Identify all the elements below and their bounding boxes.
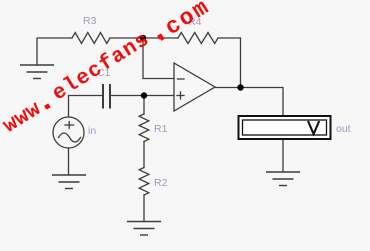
capacitor C1 plate left — [102, 85, 104, 108]
resistor R4 — [178, 33, 218, 44]
watermark www.elecfans.com — [0, 0, 215, 139]
node A junction — [140, 35, 146, 41]
ground under source — [52, 175, 86, 189]
wire R3 to node A — [110, 37, 143, 39]
op-amp plus sign — [177, 95, 184, 97]
wire op-amp output to meter corner — [215, 88, 283, 117]
op-amp minus sign — [178, 78, 185, 80]
svg-text:in: in — [88, 125, 96, 137]
voltmeter V letter — [308, 121, 319, 134]
source sine wave — [59, 133, 81, 142]
source AC circle — [53, 117, 84, 148]
op-amp U1 — [174, 63, 215, 111]
node B junction — [141, 92, 147, 98]
svg-text:R3: R3 — [83, 15, 97, 27]
resistor R1 — [139, 114, 149, 142]
wire R4 to feedback corner — [218, 38, 241, 88]
svg-text:R2: R2 — [154, 177, 168, 189]
svg-text:R1: R1 — [154, 123, 168, 135]
wire R1 to R2 — [143, 142, 145, 168]
svg-text:out: out — [336, 123, 351, 135]
ground top-left — [20, 65, 54, 79]
voltmeter V inner box — [243, 120, 327, 135]
wire source corner to capacitor — [69, 96, 103, 118]
wire capacitor to node B — [111, 95, 144, 97]
wire meter to ground — [282, 139, 284, 172]
wire node A down to inverting input — [143, 38, 174, 79]
ground under meter — [266, 172, 300, 186]
wire node B down to R1 — [143, 96, 145, 115]
voltmeter V outer box — [239, 116, 331, 139]
node output junction — [237, 84, 243, 90]
capacitor C1 plate right — [109, 85, 111, 108]
resistor R3 — [72, 33, 110, 44]
wire top-left horizontal — [37, 38, 72, 65]
wire node B to non-inverting input — [144, 95, 174, 97]
source plus sign — [65, 124, 74, 126]
ground under R2 — [127, 222, 161, 236]
wire R2 to ground — [143, 195, 145, 222]
wire node A to R4 — [143, 37, 178, 39]
wire source to ground — [68, 148, 70, 175]
resistor R2 — [139, 168, 149, 196]
